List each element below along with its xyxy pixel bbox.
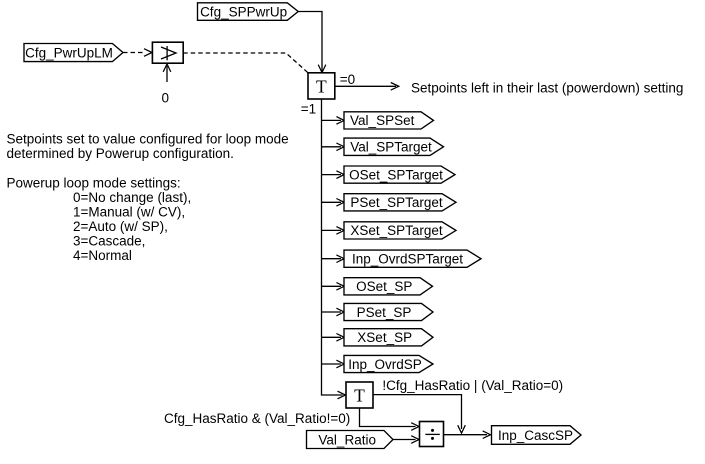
tag Inp_CascSP [492, 426, 582, 445]
tag XSet_SP [344, 329, 433, 346]
svg-text:Setpoints set to value configu: Setpoints set to value configured for lo… [7, 132, 289, 147]
selector T1 [308, 73, 335, 99]
tag XSet_SPTarget [344, 222, 456, 239]
wire branch to OSet_SPTarget [322, 171, 345, 179]
svg-text:!Cfg_HasRatio | (Val_Ratio=0): !Cfg_HasRatio | (Val_Ratio=0) [382, 378, 563, 393]
svg-text:XSet_SPTarget: XSet_SPTarget [350, 223, 443, 238]
svg-text:=0: =0 [340, 72, 355, 87]
wire branch to XSet_SPTarget [322, 227, 345, 235]
wire branch to Val_SPSet [322, 117, 345, 125]
svg-text:Cfg_PwrUpLM: Cfg_PwrUpLM [25, 45, 113, 60]
tag OSet_SPTarget [344, 166, 455, 183]
svg-text:Inp_OvrdSP: Inp_OvrdSP [348, 357, 422, 372]
wire divider output to Inp_CascSP [444, 431, 491, 439]
wire selected-output chain to T2 [322, 99, 346, 399]
wire T2 true output to Inp_CascSP junction [373, 395, 465, 434]
tag Val_SPTarget [344, 138, 444, 155]
wire T1 =0 output [335, 83, 399, 91]
tag Val_SPSet [344, 112, 434, 129]
svg-text:determined by Powerup configur: determined by Powerup configuration. [7, 146, 234, 161]
note block [7, 132, 289, 264]
wire Cfg_SPPwrUp to T1 top [298, 12, 326, 73]
svg-text:Inp_CascSP: Inp_CascSP [498, 428, 573, 443]
wire T2 false output to divider [360, 408, 420, 430]
svg-text:OSet_SPTarget: OSet_SPTarget [349, 167, 443, 182]
tag Cfg_PwrUpLM [24, 44, 123, 62]
svg-text:=1: =1 [301, 102, 316, 117]
wire branch to Inp_OvrdSP [322, 360, 345, 368]
svg-text:0: 0 [161, 91, 169, 106]
svg-text:PSet_SP: PSet_SP [357, 305, 412, 320]
comparator box [152, 42, 183, 63]
svg-text:2=Auto (w/ SP),: 2=Auto (w/ SP), [73, 219, 168, 234]
svg-text:PSet_SPTarget: PSet_SPTarget [350, 195, 443, 210]
svg-text:Cfg_HasRatio & (Val_Ratio!=0): Cfg_HasRatio & (Val_Ratio!=0) [164, 411, 350, 426]
svg-text:OSet_SP: OSet_SP [356, 279, 412, 294]
selector T2 [346, 382, 373, 408]
tag PSet_SP [344, 303, 433, 320]
wire branch to Inp_OvrdSPTarget [322, 255, 345, 263]
wire Cfg_PwrUpLM to comparator (dashed) [123, 49, 152, 57]
wire branch to Val_SPTarget [322, 143, 345, 151]
svg-text:Val_SPTarget: Val_SPTarget [350, 140, 432, 155]
wire branch to OSet_SP [322, 283, 345, 291]
tag Inp_OvrdSPTarget [344, 250, 481, 267]
svg-text:Inp_OvrdSPTarget: Inp_OvrdSPTarget [352, 252, 463, 267]
tag Cfg_SPPwrUp [198, 3, 299, 21]
svg-text:Val_SPSet: Val_SPSet [350, 113, 415, 128]
svg-text:0=No change (last),: 0=No change (last), [73, 190, 191, 205]
tag Inp_OvrdSP [344, 355, 433, 372]
svg-text:Val_Ratio: Val_Ratio [318, 432, 376, 447]
tag OSet_SP [344, 278, 433, 295]
wire branch to PSet_SP [322, 308, 345, 316]
svg-text:4=Normal: 4=Normal [73, 248, 132, 263]
svg-text:T: T [354, 385, 365, 405]
tag Val_Ratio [307, 431, 394, 449]
constant 0 input arrow [161, 64, 170, 106]
svg-text:Cfg_SPPwrUp: Cfg_SPPwrUp [200, 4, 287, 19]
wire comparator to T1 (dashed) [183, 53, 308, 73]
svg-text:Powerup loop mode settings:: Powerup loop mode settings: [7, 175, 181, 190]
divider box [420, 422, 444, 447]
wire branch to PSet_SPTarget [322, 199, 345, 207]
svg-text:3=Cascade,: 3=Cascade, [73, 234, 145, 249]
tag PSet_SPTarget [344, 194, 456, 211]
wire Val_Ratio to divider [393, 436, 419, 444]
svg-text:XSet_SP: XSet_SP [357, 330, 412, 345]
wire branch to XSet_SP [322, 334, 345, 342]
svg-text:Setpoints left in their last (: Setpoints left in their last (powerdown)… [411, 81, 683, 96]
svg-text:1=Manual (w/ CV),: 1=Manual (w/ CV), [73, 204, 185, 219]
svg-text:T: T [316, 76, 327, 96]
